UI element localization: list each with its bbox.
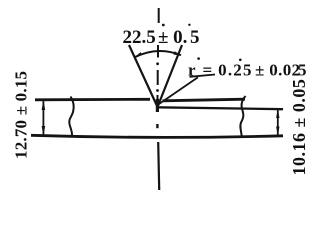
svg-text:10.16 ± 0.05: 10.16 ± 0.05 <box>289 79 309 176</box>
centerline below bar <box>158 142 159 190</box>
right break (wavy) line <box>240 96 245 137</box>
arrowhead down right dim <box>276 127 279 136</box>
centerline dash through arc <box>157 45 159 58</box>
notch vertex <box>156 99 159 112</box>
svg-text:12.70 ± 0.15: 12.70 ± 0.15 <box>12 71 31 159</box>
dimension line 12.70 left <box>42 101 44 135</box>
scan dot above 0.5 <box>188 24 190 26</box>
arrowhead left end of arc <box>134 52 142 57</box>
notch right face extended <box>158 45 182 107</box>
arrowhead right end of arc <box>174 51 182 55</box>
arrowhead up left dim <box>42 100 46 110</box>
dimension line 10.16 right <box>277 110 279 135</box>
svg-text:r = 0.25 ± 0.025: r = 0.25 ± 0.025 <box>188 61 307 80</box>
angle dimension arc <box>134 51 181 57</box>
leader underline below r = <box>190 75 216 77</box>
centerline dash above text <box>158 8 160 23</box>
centerline dot above vertex <box>156 89 159 92</box>
notch left face extended <box>129 45 157 107</box>
specimen top edge left segment <box>35 98 150 101</box>
left break (wavy) line <box>69 97 73 137</box>
leader line to radius note <box>159 77 198 104</box>
centerline dot top <box>162 24 165 27</box>
centerline dash below arc <box>157 70 159 85</box>
scan dot above 25 <box>239 59 242 62</box>
scan dot above r <box>197 57 200 60</box>
centerline dot below arc <box>156 62 159 65</box>
specimen top edge right segment <box>163 99 246 101</box>
arrowhead down left dim <box>42 126 46 136</box>
arrowhead up right dim <box>276 109 279 118</box>
notch root extension line <box>157 107 283 109</box>
specimen bottom edge <box>31 135 283 137</box>
centerline dot inside bar <box>156 124 158 128</box>
centerline dash into vertex <box>157 95 159 99</box>
svg-text:22.5 ± 0.5: 22.5 ± 0.5 <box>123 27 200 48</box>
